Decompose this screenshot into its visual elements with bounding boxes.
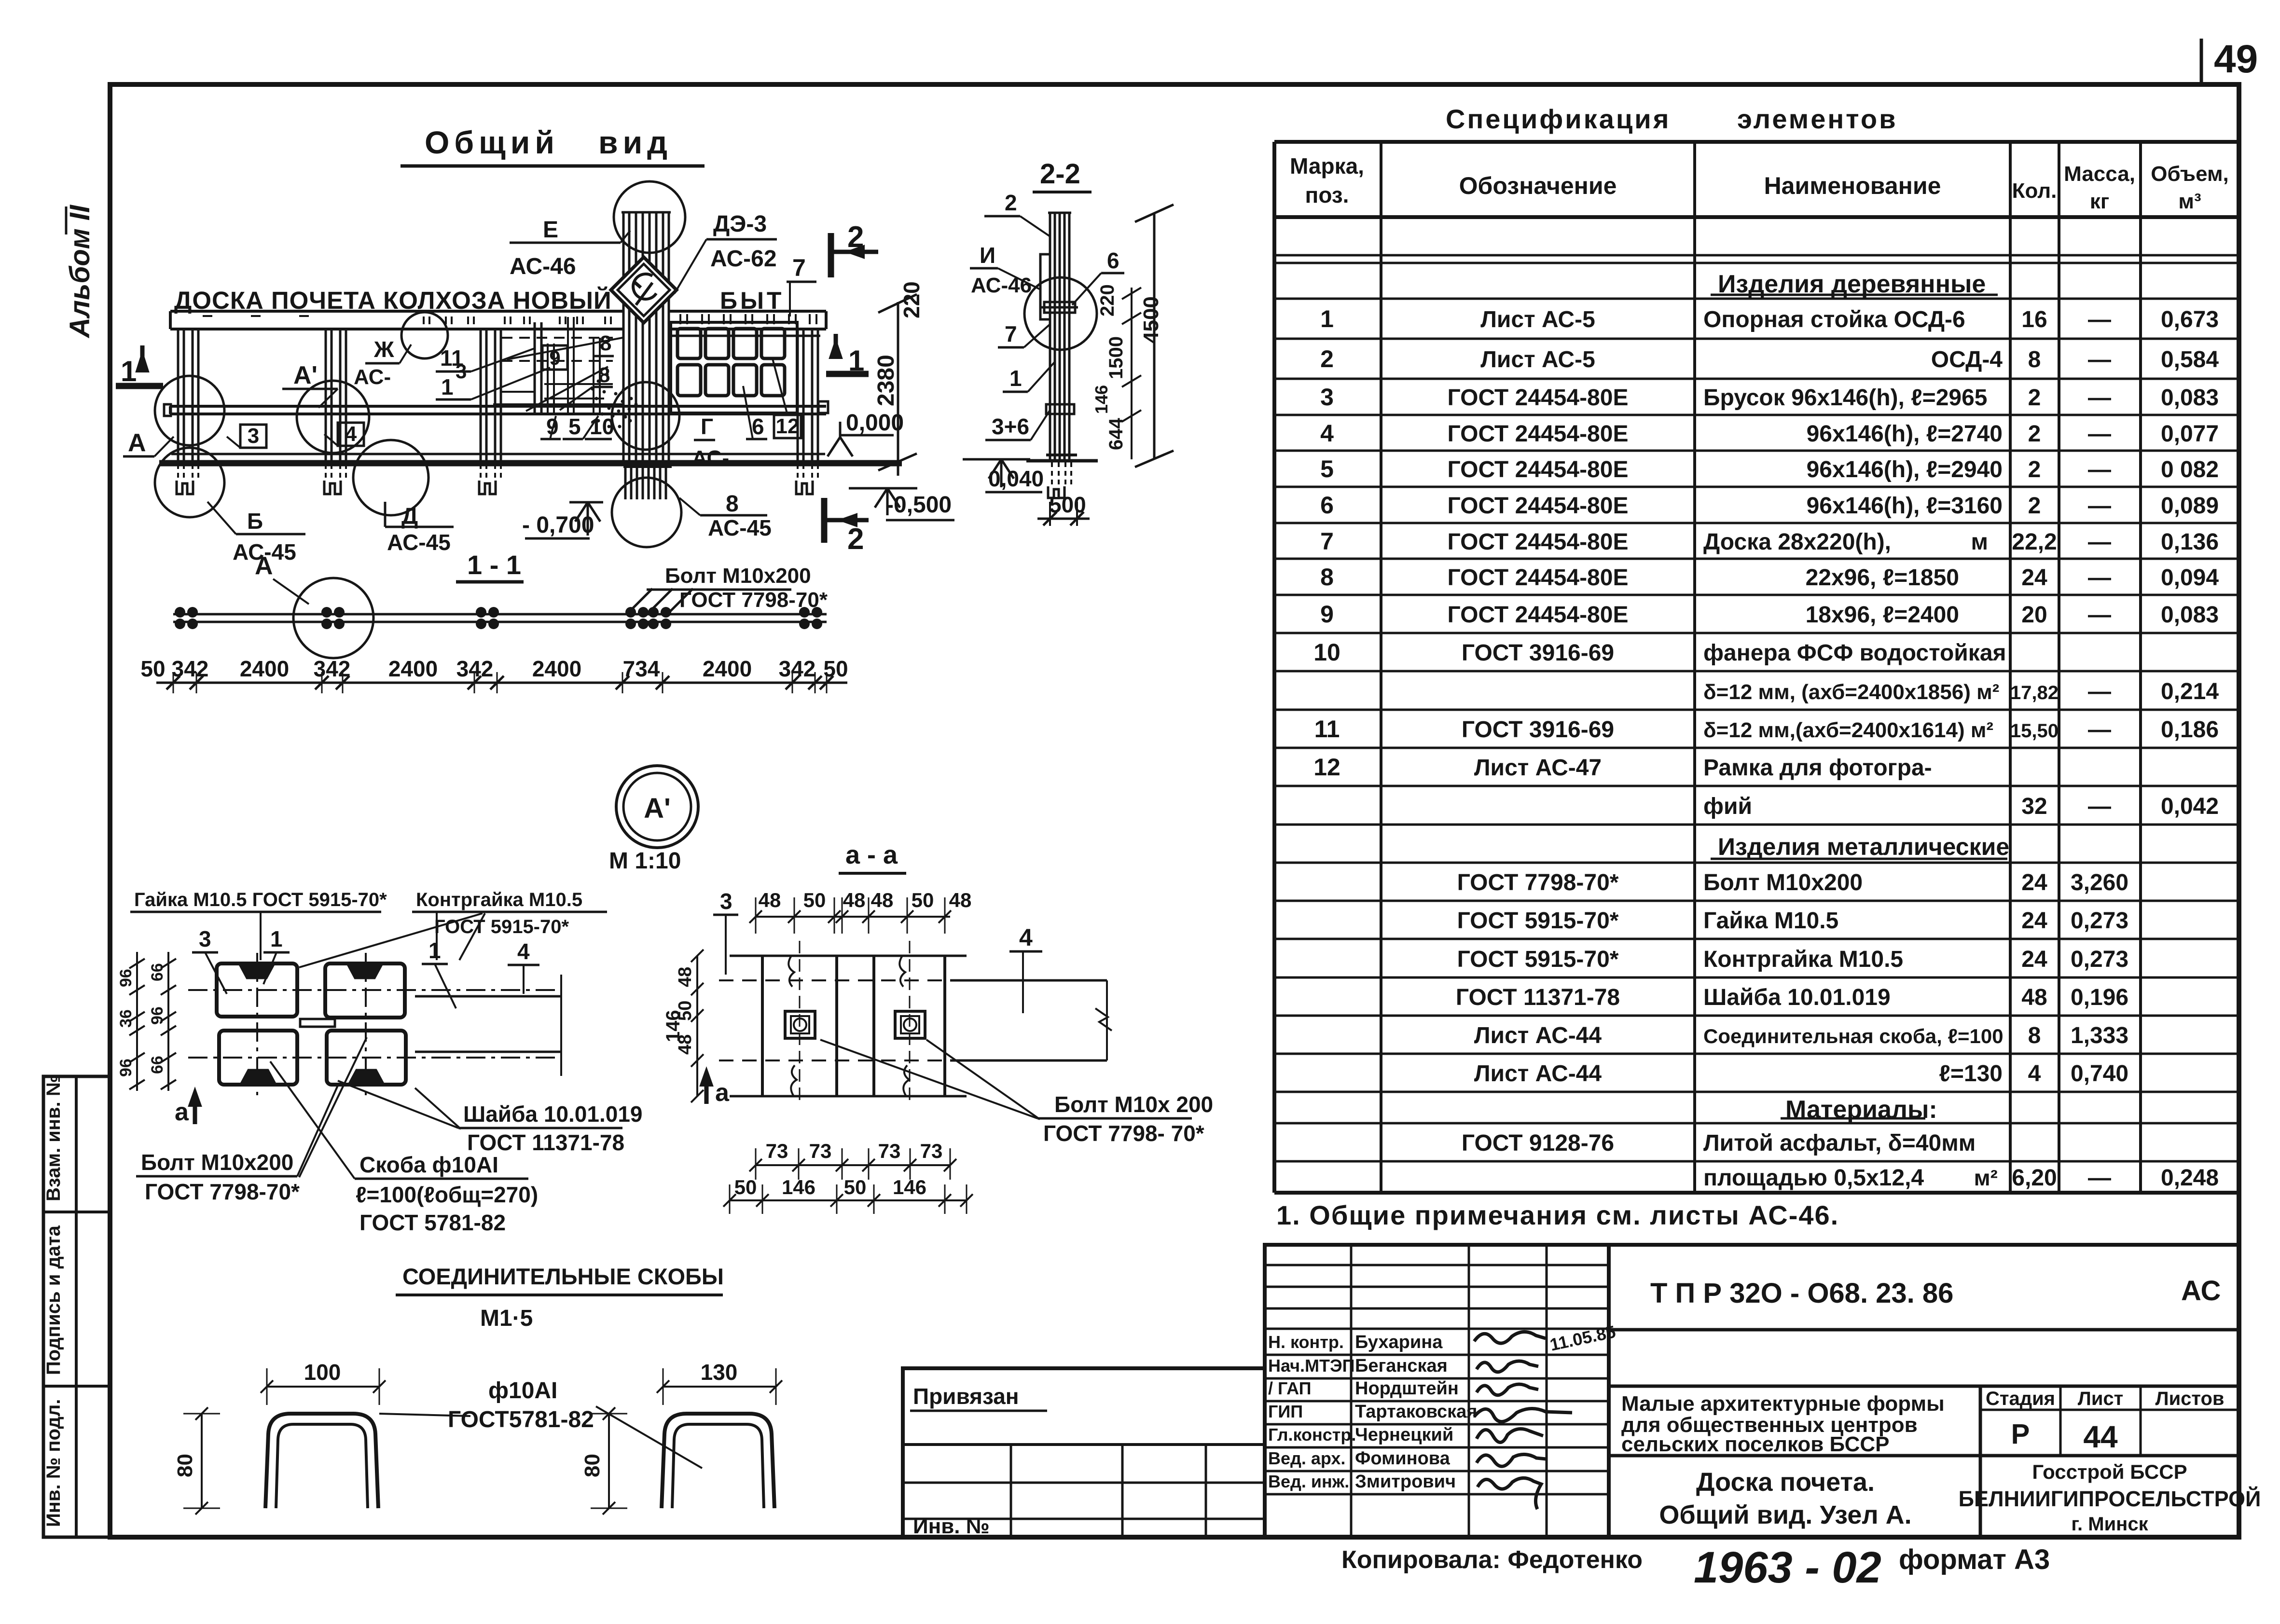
signature [1477, 1454, 1546, 1466]
svg-text:ГОСТ 5915-70*: ГОСТ 5915-70* [1457, 908, 1619, 934]
photo frame r2c2 [705, 365, 729, 396]
svg-text:0,740: 0,740 [2071, 1061, 2128, 1087]
svg-text:36: 36 [117, 1009, 135, 1028]
svg-text:а: а [715, 1079, 730, 1107]
svg-text:1 - 1: 1 - 1 [467, 550, 521, 580]
svg-text:146: 146 [1092, 385, 1111, 414]
marker a (right) [705, 1074, 709, 1104]
svg-text:Контргайка М10.5: Контргайка М10.5 [1703, 947, 1903, 972]
svg-text:146: 146 [782, 1176, 815, 1198]
post 2 (elevation) [325, 329, 327, 461]
svg-text:3+6: 3+6 [992, 414, 1029, 439]
title block signature box [1265, 1245, 1609, 1537]
svg-text:ГОСТ 7798-70*: ГОСТ 7798-70* [1457, 870, 1619, 895]
svg-text:220: 220 [899, 281, 924, 318]
break squiggle left post [788, 956, 794, 987]
2-2 post planks [1049, 213, 1051, 459]
svg-text:73: 73 [809, 1140, 832, 1162]
svg-text:Листов: Листов [2156, 1388, 2225, 1409]
photo frame r2c3 [733, 365, 757, 396]
central tower planks [622, 212, 625, 461]
svg-text:342: 342 [779, 656, 816, 681]
svg-text:96х146(h), ℓ=2740: 96х146(h), ℓ=2740 [1807, 421, 2003, 447]
svg-text:Стадия: Стадия [1986, 1388, 2055, 1409]
svg-text:2400: 2400 [388, 656, 438, 681]
svg-text:СОЕДИНИТЕЛЬНЫЕ СКОБЫ: СОЕДИНИТЕЛЬНЫЕ СКОБЫ [402, 1264, 724, 1289]
svg-text:/ ГАП: / ГАП [1268, 1378, 1312, 1398]
svg-text:Болт М10х200: Болт М10х200 [665, 564, 811, 588]
svg-text:Контргайка М10.5: Контргайка М10.5 [416, 889, 582, 910]
svg-text:АС-45: АС-45 [708, 515, 772, 540]
svg-text:220: 220 [1097, 284, 1118, 317]
svg-text:8: 8 [600, 331, 611, 355]
section marker 2 (top) [828, 233, 834, 277]
svg-text:АС-: АС- [354, 365, 391, 389]
svg-text:1. Общие примечания см. лист: 1. Общие примечания см. листы АС-46. [1276, 1200, 1839, 1230]
svg-text:ГОСТ5781-82: ГОСТ5781-82 [448, 1407, 594, 1432]
2-2 bolt bottom [1046, 404, 1074, 414]
bolt cluster 1 [175, 607, 185, 618]
clamp 100 (left) [265, 1414, 378, 1508]
post 3 (elevation) [480, 329, 482, 461]
svg-text:Р: Р [2011, 1418, 2030, 1450]
svg-text:1500: 1500 [1105, 336, 1127, 379]
svg-text:24: 24 [2021, 870, 2047, 895]
svg-text:—: — [2088, 1165, 2111, 1191]
detail A' block top-left [217, 963, 297, 1017]
svg-text:Б: Б [247, 509, 263, 534]
svg-text:Взам. инв. №: Взам. инв. № [43, 1075, 64, 1201]
svg-text:Беганская: Беганская [1355, 1356, 1448, 1376]
clamp height dims 80 [201, 1414, 203, 1508]
2-2 bolt top [1044, 302, 1075, 313]
svg-text:8: 8 [1320, 564, 1334, 591]
plan dimension line [156, 682, 847, 684]
svg-text:6,20: 6,20 [2012, 1165, 2057, 1191]
svg-text:АС-45: АС-45 [387, 530, 451, 555]
svg-text:АС-46: АС-46 [971, 274, 1032, 297]
svg-text:2400: 2400 [532, 656, 581, 681]
svg-text:δ=12 мм,(ахб=2400х1614) м²: δ=12 мм,(ахб=2400х1614) м² [1703, 718, 1993, 742]
svg-text:0,083: 0,083 [2161, 385, 2219, 411]
svg-text:АС: АС [2181, 1275, 2221, 1307]
svg-text:—: — [2088, 385, 2111, 411]
photo frame r2c1 [677, 365, 701, 396]
svg-text:73: 73 [878, 1140, 901, 1162]
svg-text:1,333: 1,333 [2071, 1023, 2128, 1048]
bolt cluster 2 [321, 607, 332, 618]
svg-text:АС-: АС- [692, 446, 729, 470]
post 4 (elevation) [797, 329, 799, 461]
svg-text:δ=12 мм, (ахб=2400х1856) м²: δ=12 мм, (ахб=2400х1856) м² [1703, 680, 1999, 704]
svg-text:А: А [255, 552, 273, 580]
a-a center verticals [799, 941, 801, 1105]
svg-text:ГОСТ 24454-80Е: ГОСТ 24454-80Е [1448, 457, 1629, 482]
svg-text:поз.: поз. [1305, 182, 1349, 207]
svg-text:44: 44 [2083, 1419, 2118, 1454]
svg-text:2-2: 2-2 [1040, 158, 1080, 190]
svg-text:Бухарина: Бухарина [1355, 1332, 1443, 1352]
svg-text:50: 50 [823, 656, 848, 681]
svg-text:500: 500 [1049, 492, 1086, 517]
callout circle A' (rail, post2) [297, 381, 369, 453]
post 1 (elevation) [177, 329, 180, 461]
svg-text:3: 3 [199, 926, 211, 951]
a-a dashed rails [719, 979, 946, 981]
svg-text:—: — [2088, 347, 2111, 372]
svg-text:Шайба 10.01.019: Шайба 10.01.019 [1703, 985, 1891, 1010]
svg-text:100: 100 [304, 1360, 341, 1385]
svg-text:Н. контр.: Н. контр. [1268, 1332, 1344, 1352]
svg-text:ГОСТ 24454-80Е: ГОСТ 24454-80Е [1448, 421, 1629, 447]
detail mark A' double circle [616, 766, 698, 848]
svg-text:2380: 2380 [873, 355, 899, 406]
svg-text:342: 342 [172, 656, 209, 681]
svg-text:1: 1 [1320, 305, 1334, 332]
svg-text:16: 16 [2021, 307, 2047, 332]
signature [1474, 1408, 1572, 1421]
svg-text:1963 - 02: 1963 - 02 [1694, 1543, 1881, 1592]
svg-text:644: 644 [1105, 418, 1127, 450]
svg-text:73: 73 [920, 1140, 943, 1162]
svg-text:кг: кг [2090, 190, 2109, 213]
svg-text:1: 1 [441, 374, 454, 399]
svg-text:48: 48 [675, 967, 695, 987]
svg-text:1: 1 [270, 926, 283, 951]
boxed label 4 under rail [338, 423, 364, 446]
svg-text:А': А' [644, 793, 671, 824]
a-a posts [730, 955, 967, 957]
svg-text:ГОСТ 24454-80Е: ГОСТ 24454-80Е [1448, 493, 1629, 519]
svg-text:ГОСТ 7798-70*: ГОСТ 7798-70* [679, 588, 828, 612]
photo frames panel (right bay) [671, 322, 797, 413]
svg-text:3: 3 [248, 424, 259, 448]
level mark -0,700 [569, 501, 603, 504]
bottom rail [171, 453, 825, 455]
svg-text:ГОСТ 3916-69: ГОСТ 3916-69 [1462, 640, 1614, 666]
svg-text:48: 48 [843, 889, 866, 911]
svg-text:0,584: 0,584 [2161, 347, 2219, 372]
signature [1477, 1361, 1538, 1372]
svg-text:Болт М10х200: Болт М10х200 [1703, 870, 1863, 895]
svg-text:9: 9 [1320, 601, 1334, 628]
top board (element 7) [170, 310, 622, 313]
svg-text:ГОСТ 24454-80Е: ГОСТ 24454-80Е [1448, 602, 1629, 628]
svg-text:БЕЛНИИГИПРОСЕЛЬСТРОЙ: БЕЛНИИГИПРОСЕЛЬСТРОЙ [1959, 1486, 2261, 1511]
svg-text:Болт М10х200: Болт М10х200 [141, 1150, 293, 1175]
svg-text:8: 8 [2028, 1023, 2041, 1048]
svg-text:10: 10 [590, 414, 614, 439]
svg-text:Вед. инж.: Вед. инж. [1268, 1472, 1349, 1491]
svg-text:130: 130 [701, 1360, 738, 1385]
page number tick [2200, 39, 2203, 86]
2-2 dim 500 [1037, 518, 1090, 520]
svg-text:73: 73 [766, 1140, 788, 1162]
svg-text:Брусок 96х146(h), ℓ=2965: Брусок 96х146(h), ℓ=2965 [1703, 385, 1987, 411]
2-2 level 0,040 [963, 458, 1030, 461]
svg-text:Соединительная скоба, ℓ=100: Соединительная скоба, ℓ=100 [1703, 1025, 2004, 1047]
svg-text:2: 2 [2028, 385, 2041, 411]
svg-text:Фоминова: Фоминова [1355, 1448, 1451, 1469]
svg-text:—: — [2088, 529, 2111, 555]
svg-text:32: 32 [2021, 794, 2047, 819]
svg-text:66: 66 [148, 963, 166, 981]
bolt cluster 4a [625, 607, 636, 618]
svg-text:ф10АI: ф10АI [488, 1378, 557, 1404]
svg-text:15,50: 15,50 [2010, 720, 2059, 742]
svg-text:1: 1 [428, 938, 441, 963]
svg-text:0,673: 0,673 [2161, 307, 2219, 332]
svg-text:Лист АС-44: Лист АС-44 [1474, 1061, 1602, 1087]
middle rail (element 3/4) [170, 405, 826, 408]
svg-text:Подпись и дата: Подпись и дата [43, 1225, 64, 1375]
svg-text:3: 3 [456, 360, 467, 383]
svg-text:ГОСТ 3916-69: ГОСТ 3916-69 [1462, 717, 1614, 743]
svg-text:9: 9 [549, 346, 560, 369]
title block left box (privyazan) [903, 1368, 1265, 1537]
svg-text:Т П Р 32О - О68. 23. 86: Т П Р 32О - О68. 23. 86 [1650, 1278, 1953, 1309]
svg-text:48: 48 [759, 889, 781, 911]
section marker 1 (right) [826, 371, 869, 377]
svg-text:24: 24 [2021, 908, 2047, 934]
svg-text:50: 50 [734, 1176, 757, 1198]
detail A' block bottom-right [327, 1031, 406, 1085]
svg-text:Лист АС-5: Лист АС-5 [1480, 347, 1595, 372]
svg-text:48: 48 [949, 889, 972, 911]
svg-text:0,186: 0,186 [2161, 717, 2219, 743]
svg-text:49: 49 [2214, 37, 2258, 81]
svg-text:8: 8 [726, 491, 739, 517]
svg-text:50: 50 [912, 889, 934, 911]
label 9 boxed [542, 345, 567, 370]
signature [1478, 1478, 1541, 1509]
bolt cluster 5 [799, 607, 810, 618]
svg-text:—: — [2088, 717, 2111, 743]
svg-text:ГОСТ 11371-78: ГОСТ 11371-78 [1456, 985, 1620, 1010]
callout circle A (rail, post1) [155, 376, 224, 445]
svg-text:4: 4 [1320, 420, 1334, 447]
tower top callout circle E [614, 181, 685, 253]
svg-text:г. Минск: г. Минск [2071, 1514, 2148, 1535]
callout circle D (footing) [353, 440, 428, 515]
svg-text:Масса,: Масса, [2064, 162, 2135, 186]
svg-text:50: 50 [844, 1176, 867, 1198]
detail A' block top-right [325, 963, 405, 1018]
svg-text:Рамка для фотогра-: Рамка для фотогра- [1703, 755, 1932, 781]
tower footing hatch [624, 467, 627, 499]
svg-text:ℓ=100(ℓобщ=270): ℓ=100(ℓобщ=270) [356, 1182, 538, 1207]
svg-text:10: 10 [1313, 639, 1340, 666]
hammer-sickle diamond sign DE-3 [611, 257, 677, 323]
svg-text:96х146(h), ℓ=3160: 96х146(h), ℓ=3160 [1807, 493, 2003, 519]
detail A' centerlines and rails [188, 989, 561, 991]
svg-text:сельских поселков БССР: сельских поселков БССР [1621, 1432, 1889, 1456]
svg-text:ℓ=130: ℓ=130 [1939, 1061, 2003, 1087]
svg-text:М 1:10: М 1:10 [609, 848, 681, 874]
svg-text:734: 734 [623, 656, 660, 681]
svg-text:Болт М10х 200: Болт М10х 200 [1054, 1092, 1213, 1117]
svg-text:11: 11 [1314, 716, 1340, 743]
svg-text:Обозначение: Обозначение [1459, 172, 1617, 199]
svg-text:1: 1 [121, 355, 137, 387]
svg-text:18х96, ℓ=2400: 18х96, ℓ=2400 [1806, 602, 1959, 628]
svg-text:Копировала: Федотенко: Копировала: Федотенко [1341, 1546, 1643, 1574]
svg-text:—: — [2088, 794, 2111, 819]
svg-text:Гайка М10.5 ГОСТ 5915-70*: Гайка М10.5 ГОСТ 5915-70* [134, 889, 387, 910]
svg-text:80: 80 [580, 1454, 604, 1477]
svg-text:0,136: 0,136 [2161, 529, 2219, 555]
level mark -0,500 [849, 487, 917, 490]
svg-text:а: а [175, 1098, 189, 1126]
svg-text:Привязан: Привязан [913, 1384, 1019, 1409]
svg-text:4500: 4500 [1139, 296, 1163, 344]
break squiggle right post [899, 956, 905, 987]
svg-text:2: 2 [847, 523, 864, 556]
2-2 callout circle [1024, 277, 1097, 350]
svg-text:а - а: а - а [845, 840, 898, 869]
svg-text:Тартаковская: Тартаковская [1355, 1402, 1477, 1422]
svg-text:—: — [2088, 493, 2111, 519]
svg-text:Объем,: Объем, [2151, 162, 2229, 186]
2-2 inner dims [1131, 288, 1133, 459]
boxed label 3 under rail [240, 425, 266, 448]
svg-text:8: 8 [598, 363, 610, 387]
stippled patch [614, 392, 618, 396]
svg-text:8: 8 [2028, 347, 2041, 372]
section marker 2 (bottom) [821, 498, 828, 543]
svg-text:А': А' [293, 361, 318, 389]
svg-text:—: — [2088, 565, 2111, 591]
svg-text:4: 4 [345, 422, 357, 446]
svg-text:4: 4 [517, 939, 530, 964]
svg-text:Альбом II: Альбом II [64, 204, 96, 339]
svg-text:12: 12 [776, 414, 800, 438]
callout circle G (rail, tower) [612, 382, 679, 450]
svg-text:ГОСТ 24454-80Е: ГОСТ 24454-80Е [1448, 529, 1629, 555]
svg-text:50: 50 [140, 656, 165, 681]
svg-text:Госстрой БССР: Госстрой БССР [2032, 1460, 2187, 1483]
svg-text:—: — [2088, 307, 2111, 332]
svg-text:17,82: 17,82 [2010, 682, 2059, 703]
detail A' left dims [136, 952, 138, 1091]
svg-text:96: 96 [148, 1006, 166, 1025]
svg-text:ГОСТ 5781-82: ГОСТ 5781-82 [359, 1210, 506, 1235]
svg-text:Гайка М10.5: Гайка М10.5 [1703, 908, 1838, 934]
svg-text:Ж: Ж [373, 337, 394, 362]
svg-text:24: 24 [2021, 565, 2047, 591]
svg-text:80: 80 [173, 1454, 197, 1477]
svg-text:ГИП: ГИП [1268, 1402, 1303, 1421]
svg-text:6: 6 [752, 414, 764, 439]
svg-text:Чернецкий: Чернецкий [1355, 1425, 1453, 1445]
photo frame r1c4 [761, 329, 785, 358]
svg-text:Литой асфальт, δ=40мм: Литой асфальт, δ=40мм [1703, 1130, 1976, 1156]
svg-text:0 082: 0 082 [2161, 457, 2219, 482]
svg-text:0,083: 0,083 [2161, 602, 2219, 628]
middle bay scaffold sketch [534, 322, 536, 414]
svg-text:96: 96 [117, 969, 135, 987]
svg-text:фанера ФСФ водостойкая: фанера ФСФ водостойкая [1703, 640, 2006, 666]
svg-text:2: 2 [2028, 421, 2041, 447]
detail A' block bottom-left [219, 1031, 297, 1085]
svg-text:фий: фий [1703, 794, 1752, 819]
clamp 130 (right) [662, 1414, 774, 1508]
svg-text:4: 4 [2028, 1061, 2041, 1087]
photo frame r2c4 [761, 365, 785, 396]
svg-text:2400: 2400 [703, 656, 752, 681]
svg-text:0,040: 0,040 [988, 466, 1044, 491]
signature [1477, 1384, 1538, 1395]
svg-text:ОСД-4: ОСД-4 [1931, 347, 2003, 372]
svg-text:342: 342 [314, 656, 351, 681]
svg-text:1: 1 [1009, 366, 1022, 391]
svg-text:Г: Г [701, 414, 713, 439]
signature [1477, 1429, 1543, 1443]
callout circle tower footing [612, 478, 681, 547]
a-a bar to the right [950, 979, 1107, 982]
svg-text:5: 5 [568, 414, 581, 439]
svg-text:6: 6 [1320, 492, 1334, 519]
svg-text:Д: Д [401, 504, 418, 529]
svg-text:—: — [2088, 457, 2111, 482]
svg-text:- 0,700: - 0,700 [522, 512, 594, 538]
svg-text:22,2: 22,2 [2012, 529, 2057, 555]
svg-text:м²: м² [1974, 1165, 1998, 1190]
left margin strip [43, 1076, 110, 1537]
svg-text:Скоба ф10АI: Скоба ф10АI [359, 1152, 498, 1177]
svg-text:ГОСТ 7798- 70*: ГОСТ 7798- 70* [1043, 1121, 1204, 1146]
title block right box [1609, 1245, 2239, 1537]
svg-text:Вед. арх.: Вед. арх. [1268, 1448, 1345, 1468]
svg-text:Лист: Лист [2078, 1388, 2124, 1409]
photo frame r1c1 [677, 329, 701, 358]
svg-text:Общий: Общий [425, 124, 559, 160]
svg-text:50: 50 [803, 889, 826, 911]
svg-text:Инв. №: Инв. № [913, 1514, 990, 1538]
svg-text:2: 2 [1320, 345, 1334, 372]
svg-text:1: 1 [848, 344, 864, 377]
svg-text:0,214: 0,214 [2161, 679, 2219, 704]
clamp dims [267, 1386, 379, 1388]
svg-text:146: 146 [893, 1176, 926, 1198]
callout circle B (footing, post1) [155, 448, 224, 517]
svg-text:Доска почета.: Доска почета. [1696, 1468, 1875, 1497]
svg-text:96х146(h), ℓ=2940: 96х146(h), ℓ=2940 [1807, 457, 2003, 482]
signature [1474, 1332, 1546, 1343]
svg-text:Нордштейн: Нордштейн [1355, 1378, 1459, 1399]
section marker 1 (left) [116, 383, 163, 389]
ground line [159, 460, 902, 467]
svg-text:0,000: 0,000 [846, 410, 904, 436]
svg-text:Е: Е [543, 217, 558, 243]
svg-text:Наименование: Наименование [1764, 172, 1941, 199]
a-a left dims [696, 956, 698, 1096]
svg-text:Шайба 10.01.019: Шайба 10.01.019 [463, 1101, 643, 1127]
hammer and sickle emblem [633, 274, 656, 299]
svg-text:—: — [2088, 602, 2111, 628]
svg-text:Лист АС-47: Лист АС-47 [1474, 755, 1602, 781]
board end-grain ticks [679, 314, 681, 324]
svg-text:А: А [128, 429, 146, 457]
2-2 side plank (I) [1040, 254, 1050, 319]
photo frame r1c2 [705, 329, 729, 358]
svg-text:2400: 2400 [240, 656, 289, 681]
a-a bottom dims [756, 1164, 950, 1166]
svg-text:6: 6 [1107, 248, 1119, 273]
bolt cluster 4b [648, 607, 659, 618]
plan board lines [173, 613, 827, 616]
svg-text:48: 48 [871, 889, 894, 911]
